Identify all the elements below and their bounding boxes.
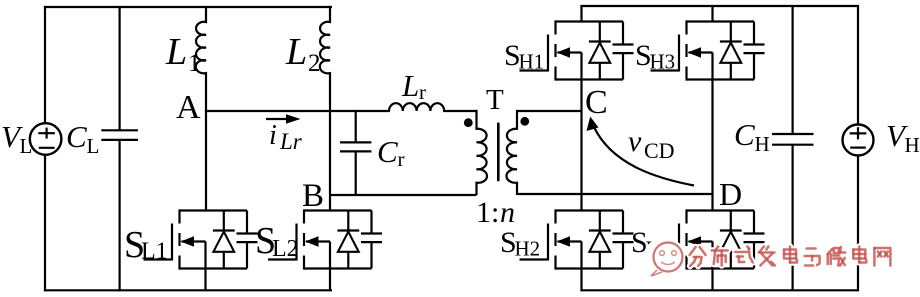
svg-text:n: n	[500, 196, 515, 229]
svg-text:L: L	[165, 31, 187, 73]
svg-text:B: B	[302, 178, 324, 214]
capacitor CL	[101, 6, 138, 292]
label Cr	[377, 134, 405, 171]
label CH	[734, 117, 770, 156]
svg-text:L: L	[87, 134, 100, 158]
svg-text:C: C	[585, 84, 608, 121]
svg-text:H: H	[755, 132, 770, 156]
svg-text:2: 2	[308, 50, 321, 77]
wire node A to SL1 drain	[205, 111, 207, 211]
label vCD	[628, 125, 675, 163]
svg-text:v: v	[628, 125, 642, 158]
label CL	[66, 119, 99, 158]
body diode of SH4	[720, 211, 742, 269]
svg-text:L1: L1	[141, 239, 168, 265]
svg-text:H3: H3	[650, 50, 676, 74]
svg-text:1: 1	[188, 50, 201, 77]
transistor SL1 (MOSFET)	[144, 209, 248, 269]
svg-text:D: D	[719, 176, 742, 212]
node B label	[302, 178, 324, 214]
wire node C to bridge leg	[517, 110, 582, 112]
label 1:n turns ratio	[476, 196, 515, 229]
svg-text:L: L	[20, 134, 33, 158]
svg-text:L: L	[285, 31, 307, 73]
transistor SH2 (MOSFET)	[520, 209, 624, 269]
wire left rail	[44, 6, 46, 292]
svg-text:C: C	[734, 117, 755, 152]
wire node B to SL2 drain	[329, 195, 331, 211]
voltage arrow vCD	[587, 117, 695, 186]
node D label	[719, 176, 742, 212]
inductor L1	[196, 6, 206, 111]
svg-text:CD: CD	[644, 138, 675, 163]
transistor SH3 (MOSFET)	[651, 20, 755, 80]
svg-text:A: A	[176, 89, 201, 126]
svg-text:L2: L2	[272, 236, 299, 262]
transistor SH1 (MOSFET)	[520, 20, 624, 80]
wire SH1 source to SH2 drain through node C	[580, 80, 582, 211]
label SH4	[631, 226, 672, 261]
label L1	[165, 31, 201, 77]
label iLr	[269, 120, 303, 154]
resonant inductor Lr	[389, 103, 477, 111]
svg-text:T: T	[486, 84, 504, 116]
voltage source VL	[30, 123, 62, 155]
label VH	[886, 118, 920, 157]
label VL	[1, 119, 32, 158]
wire top rail of high-voltage bridge	[580, 5, 859, 7]
transistor SH4 (MOSFET)	[651, 209, 755, 269]
wire node A to resonant tank	[205, 110, 390, 112]
body diode of SH2	[589, 211, 611, 269]
output capacitor of SL2	[361, 211, 382, 269]
body diode of SL1	[213, 211, 235, 269]
output capacitor of SL1	[237, 211, 258, 269]
wire bottom rail of low-voltage bridge	[44, 289, 332, 291]
voltage source VH	[843, 6, 874, 290]
svg-text:H1: H1	[519, 50, 545, 74]
svg-text:1:: 1:	[476, 196, 499, 229]
svg-text:L: L	[401, 68, 419, 103]
wire SH3 source to SH4 drain through node D	[711, 80, 713, 211]
wire top rail of low-voltage bridge	[44, 6, 332, 8]
wire bottom rail of high-voltage bridge	[580, 289, 859, 291]
current arrow iLr	[266, 114, 301, 124]
transformer T secondary winding	[506, 110, 517, 195]
label SL2	[255, 220, 299, 262]
wire top rail to SH1 drain	[580, 6, 582, 22]
svg-text:i: i	[269, 120, 277, 151]
wire SH2 source to bottom rail	[580, 269, 582, 292]
output capacitor of SH1	[613, 22, 634, 80]
transformer core	[497, 123, 500, 182]
resonant capacitor Cr	[340, 110, 371, 195]
svg-text:Lr: Lr	[279, 129, 303, 154]
label SH2	[500, 226, 540, 261]
label SH1	[504, 39, 544, 74]
label SH3	[635, 39, 675, 74]
wire top rail to SH3 drain	[711, 6, 713, 22]
transformer T primary winding	[477, 110, 488, 195]
capacitor CH	[772, 6, 814, 290]
label Lr	[401, 68, 426, 104]
svg-text:H2: H2	[515, 237, 541, 261]
watermark text 分布式发电与微电网	[690, 247, 891, 267]
polarity dot primary	[464, 118, 473, 127]
watermark logo	[645, 240, 684, 276]
svg-text:C: C	[377, 134, 398, 169]
node C label	[585, 84, 608, 121]
svg-text:r: r	[419, 80, 426, 104]
svg-text:C: C	[66, 119, 87, 154]
body diode of SL2	[337, 211, 359, 269]
wire node B to transformer	[330, 194, 477, 196]
wire node D to bridge leg	[517, 193, 713, 195]
output capacitor of SH2	[613, 211, 634, 269]
wire SL2 source to bottom rail	[329, 269, 331, 292]
label T	[486, 84, 504, 116]
inductor L2	[320, 6, 330, 195]
polarity dot secondary	[520, 117, 529, 126]
label SL1	[124, 224, 168, 266]
output capacitor of SH3	[744, 22, 765, 80]
body diode of SH1	[589, 22, 611, 80]
output capacitor of SH4	[744, 211, 765, 269]
body diode of SH3	[720, 22, 742, 80]
svg-text:r: r	[398, 147, 405, 171]
transistor SL2 (MOSFET)	[268, 209, 372, 269]
wire SL1 source to bottom rail	[204, 269, 206, 292]
svg-text:H: H	[905, 133, 920, 157]
node A label	[176, 89, 201, 126]
wire SH4 source to bottom rail	[711, 269, 713, 292]
label L2	[285, 31, 321, 77]
